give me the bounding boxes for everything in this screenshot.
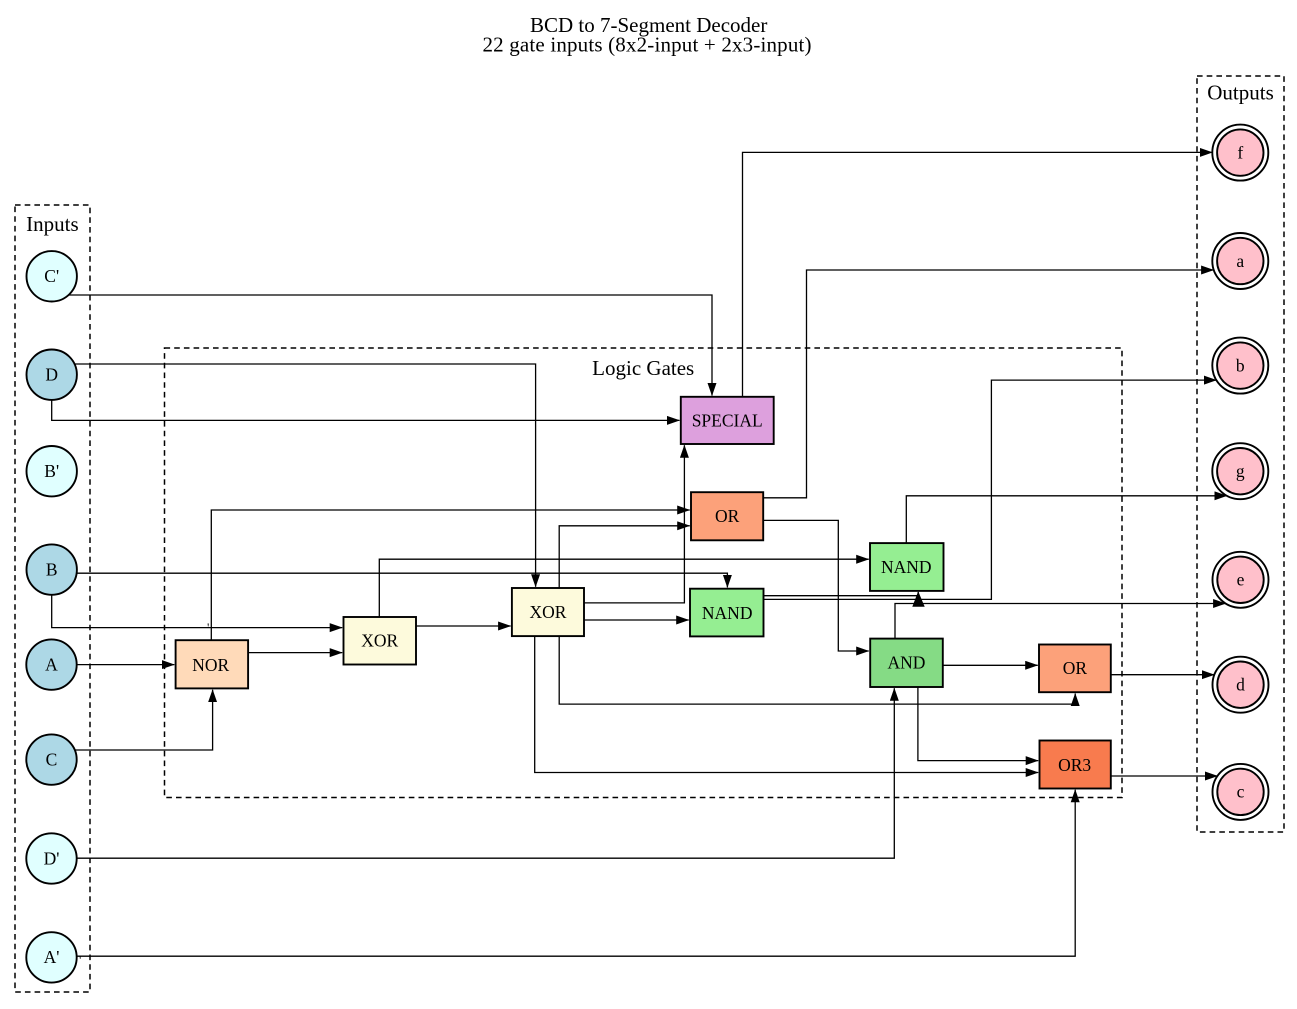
svg-text:C: C [46, 749, 58, 769]
input C [26, 734, 76, 784]
input D' [26, 833, 76, 883]
svg-text:B: B [46, 559, 58, 579]
input B [27, 544, 77, 594]
wire XOR1 top to NAND top-gate input 1 [379, 559, 868, 617]
svg-text:SPECIAL: SPECIAL [692, 410, 763, 430]
cluster Inputs [15, 205, 90, 992]
wire D' to AND bottom [77, 688, 895, 858]
svg-text:B': B' [44, 461, 59, 481]
svg-text:A': A' [44, 947, 60, 967]
gate NAND left [690, 589, 764, 637]
svg-text:NAND: NAND [881, 557, 932, 577]
gate OR top [691, 492, 763, 540]
wire OR-d to output d [1111, 674, 1215, 676]
svg-text:OR: OR [715, 506, 740, 526]
svg-text:e: e [1237, 570, 1245, 590]
svg-text:f: f [1237, 142, 1243, 162]
svg-text:': ' [207, 620, 209, 635]
svg-text:A: A [45, 654, 58, 674]
wire OR to AND input 1 [763, 520, 869, 651]
wire A to NOR input [77, 664, 175, 666]
input A' [26, 932, 76, 982]
svg-text:c: c [1237, 782, 1245, 802]
wire AND to OR-d input [943, 664, 1038, 666]
gate SPECIAL [681, 397, 774, 444]
input C' [27, 251, 77, 301]
svg-text:22 gate inputs (8x2-input + 2x: 22 gate inputs (8x2-input + 2x3-input) [483, 33, 812, 57]
gate NAND top [870, 543, 944, 591]
gate AND [870, 639, 943, 687]
input D [27, 350, 77, 400]
wire NAND left-gate to NAND top-gate bottom [764, 592, 919, 596]
output g [1212, 443, 1268, 499]
gate XOR2 [512, 588, 584, 636]
svg-text:g: g [1236, 461, 1245, 481]
wire OR3 to output c [1111, 775, 1218, 777]
svg-text:a: a [1236, 251, 1244, 271]
arrowhead into NAND top-gate bottom [912, 591, 924, 607]
input A [26, 639, 76, 689]
output b [1212, 338, 1268, 394]
output f [1212, 125, 1268, 181]
svg-text:AND: AND [888, 653, 926, 673]
svg-text:OR: OR [1063, 658, 1088, 678]
wire XOR2 bottom to OR3 input 2 [535, 636, 1038, 772]
wire OR to output a [763, 270, 1213, 498]
svg-text:Inputs: Inputs [26, 212, 79, 236]
input B' [27, 446, 77, 496]
wire NOR to XOR1 input 2 [248, 652, 342, 654]
svg-text:OR3: OR3 [1058, 755, 1091, 775]
wire D to SPECIAL left [52, 400, 680, 421]
wire XOR2 bottom to OR-d bottom [559, 636, 1075, 704]
wire XOR2 top to OR input 2 [559, 526, 690, 588]
svg-text:b: b [1236, 355, 1245, 375]
wire XOR2 to SPECIAL bottom [584, 445, 684, 603]
output d [1213, 657, 1269, 713]
wire NOR top to OR input 1 [211, 510, 689, 640]
gate NOR [176, 640, 249, 688]
wire C' to SPECIAL top [69, 295, 713, 396]
svg-text:NAND: NAND [702, 603, 753, 623]
wire NAND top-gate to output g [906, 496, 1227, 543]
wire B to NAND left-gate top [77, 573, 728, 587]
svg-text:d: d [1236, 675, 1245, 695]
wire AND top to output e [895, 604, 1226, 639]
svg-text:XOR: XOR [530, 602, 567, 622]
gate OR3 [1040, 741, 1111, 789]
output a [1212, 233, 1268, 289]
wire B to XOR1 input 1 [52, 595, 343, 628]
svg-text:C': C' [44, 266, 59, 286]
svg-text:': ' [79, 953, 81, 968]
svg-text:XOR: XOR [361, 631, 398, 651]
wire AND bottom to OR3 input 1 [918, 687, 1038, 761]
output e [1213, 552, 1269, 608]
wire C to NOR bottom [75, 690, 213, 750]
wire SPECIAL to output f [743, 152, 1213, 396]
output c [1213, 764, 1269, 820]
svg-text:Outputs: Outputs [1207, 81, 1274, 105]
wire A' to OR3 bottom [77, 790, 1076, 956]
wire XOR2 to NAND left-gate input [584, 619, 689, 621]
wire XOR1 to XOR2 input [416, 625, 511, 627]
svg-text:D': D' [44, 848, 60, 868]
svg-text:D: D [45, 365, 58, 385]
cluster Outputs [1197, 76, 1284, 832]
gate OR d [1039, 645, 1111, 693]
svg-text:Logic Gates: Logic Gates [592, 356, 694, 380]
wire NAND left-gate to output b [764, 380, 1217, 599]
gate XOR1 [344, 617, 417, 665]
svg-text:NOR: NOR [192, 655, 229, 675]
cluster Logic Gates [165, 348, 1123, 798]
wire D to XOR2 top [75, 364, 536, 587]
